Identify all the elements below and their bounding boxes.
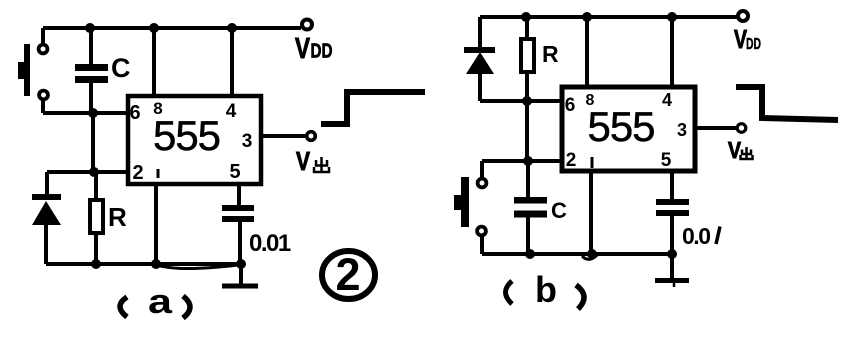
junction node pin2 line right [523,156,533,166]
junction node pin6 line [88,108,98,118]
wire pin1 junction hook right [582,255,597,259]
junction node top rail pin4 right [667,12,677,22]
svg-text:DD: DD [746,36,761,53]
wire resistor R upper [94,172,98,201]
capacitor C plates [75,64,108,71]
svg-text:4: 4 [662,90,672,110]
wire stub button bottom to pin6 line [41,99,45,113]
wire capacitor C lower right [526,217,530,254]
junction node top rail pin8 right [582,12,592,22]
junction node bottom rail ground [236,259,246,269]
wire capacitor C upper [89,28,93,65]
svg-text:b: b [535,269,557,310]
wire pin 6 line [43,111,128,115]
pushbutton S2 circles [478,179,487,188]
terminal VDD left [302,20,312,30]
wire pin 5 upper right [670,171,674,200]
svg-text:5: 5 [229,161,240,183]
figure number circle 2 [322,251,375,299]
terminal Vout left [307,132,316,141]
svg-text:2: 2 [566,150,577,171]
capacitor 0.01 plates right [656,199,689,205]
label (b) [506,281,513,304]
junction node pin2 line [89,167,99,177]
junction node top rail R right [521,12,531,22]
pushbutton S2 actuator bar [461,177,469,227]
wire bottom rail double stroke [157,265,238,269]
wire pin 3 output right [695,126,736,130]
ground bar [222,284,258,289]
svg-text:3: 3 [242,131,253,152]
wire resistor R lower right [525,71,529,101]
junction node pin6 line right [522,96,532,106]
label chu glyph left [314,157,329,172]
diode D1 cathode bar [32,194,61,200]
svg-text:6: 6 [129,102,140,124]
svg-text:555: 555 [153,112,220,159]
junction node bottom rail C right [525,249,535,259]
diode D2 cathode bar [464,47,495,53]
capacitor C2 plates [514,197,547,204]
wire cap 0.01 lower [238,221,242,264]
wire stub button bottom right [480,235,484,254]
label chu glyph right [741,147,753,159]
wire pin 4 right [670,17,674,87]
svg-text:R: R [108,202,127,232]
wire diode branch lower right [478,72,482,101]
junction node top rail pin4 [227,23,237,33]
wire pin 8 [152,28,156,96]
svg-text:555: 555 [587,103,654,150]
svg-text:8: 8 [586,92,595,109]
svg-text:3: 3 [677,120,687,140]
wire capacitor C lower [89,82,93,113]
wire diode branch lower [44,224,48,264]
wire pin 1 right [589,171,593,254]
label (a) [120,297,127,317]
svg-text:C: C [111,53,130,83]
svg-text:V: V [296,146,311,176]
svg-text:2: 2 [132,162,143,184]
wire capacitor C upper right [526,161,530,198]
svg-text:DD: DD [311,41,333,63]
wire pin 2 line [47,170,128,174]
svg-text:V: V [295,33,311,65]
junction node bottom rail pin1 right [587,249,597,259]
resistor R2 body [521,39,534,72]
wire cap 0.01 lower right [670,215,674,254]
svg-text:8: 8 [153,99,162,118]
wire pin 3 output [260,134,305,138]
svg-text:4: 4 [226,101,237,122]
wire diode branch upper [45,172,49,194]
terminal Vout right [737,124,746,133]
svg-text:6: 6 [565,95,576,116]
pushbutton S1 actuator bar [24,44,30,96]
wire pin 2 line right [482,159,562,163]
waveform step up [321,92,425,124]
svg-text:C: C [551,198,567,223]
pushbutton S1 plunger [18,62,25,79]
pushbutton S1 circles [39,45,48,54]
wire pin6 to pin2 tie right [525,101,529,161]
svg-text:a: a [148,283,173,321]
junction node top rail C [85,23,95,33]
junction node bottom rail R [91,259,101,269]
wire bottom rail right [482,252,674,256]
pin 1 tick right [591,157,594,168]
resistor R body [90,200,103,233]
waveform step down [736,87,838,120]
svg-text:5: 5 [661,150,672,171]
diode D2 triangle [466,52,494,74]
op-amp U2 555 box [562,87,695,171]
svg-text:R: R [542,41,559,67]
pushbutton S2 plunger [454,195,461,210]
ground stub right [670,254,674,278]
junction node bottom rail ground right [667,249,677,259]
wire pin 6 line right [480,99,562,103]
wire pin 1 [154,184,158,264]
junction node bottom rail pin1 [151,259,161,269]
ground bar right [655,278,689,283]
wire pin 4 [230,28,234,96]
wire top rail right [480,15,737,19]
wire pin6 to pin2 tie [91,113,95,172]
ground tick right [673,283,676,287]
wire stub button top right [480,161,484,178]
svg-text:0.0: 0.0 [682,223,710,249]
svg-text:2: 2 [335,249,360,300]
wire pin 5 upper [237,184,241,206]
wire top rail left [43,26,301,30]
diode D1 triangle [32,201,61,225]
wire stub button top to rail [41,28,45,45]
op-amp U1 555 box [128,96,261,184]
wire bottom rail [46,262,241,266]
wire pin 8 right [585,17,589,87]
wire diode branch upper right [478,17,482,47]
junction node top rail pin8 [149,23,159,33]
wire resistor R upper right [525,17,529,40]
wire resistor R lower [94,233,98,264]
ground stub [239,264,243,284]
svg-text:0.01: 0.01 [249,230,291,257]
pin 1 tick [157,169,160,178]
terminal VDD right [738,11,748,21]
capacitor 0.01 plates [222,205,254,211]
